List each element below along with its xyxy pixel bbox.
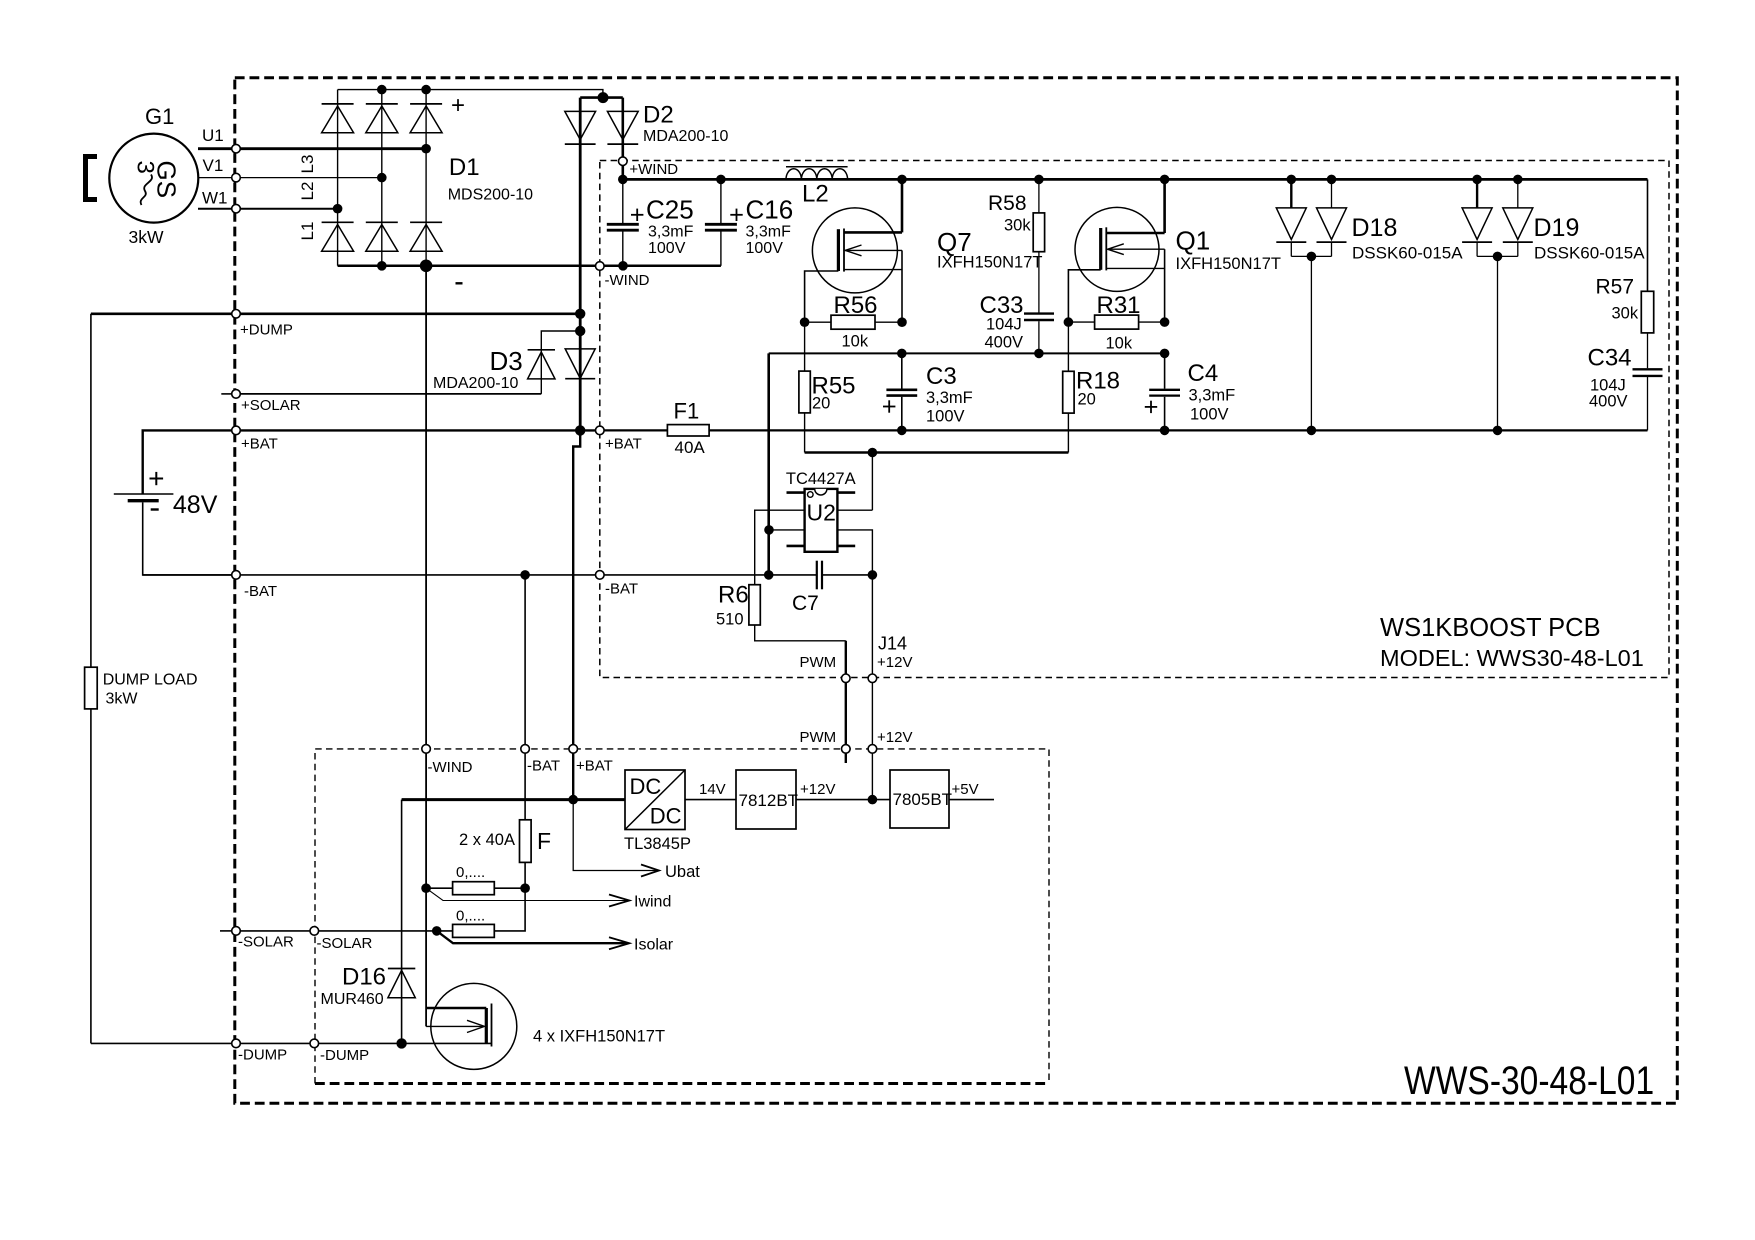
terminal -DUMP box2 <box>310 1039 319 1048</box>
D18 join wire <box>1291 255 1331 257</box>
wire top rail right corner down <box>1647 179 1649 291</box>
dump load resistor body <box>85 667 98 709</box>
junction bridge bottom right <box>420 260 433 273</box>
junction +WIND node <box>618 175 628 185</box>
resistor R18 top lead <box>1067 322 1069 371</box>
shunt Isolar body <box>453 924 495 937</box>
wire +12V tap down to U2 <box>871 453 873 511</box>
junction D19 right top <box>1513 175 1523 185</box>
svg-text:40A: 40A <box>675 438 706 457</box>
svg-text:C7: C7 <box>792 592 819 615</box>
junction C3 top <box>897 349 907 359</box>
D1 bridge mid column wire <box>381 90 383 266</box>
U2 top-left pin stub <box>787 491 805 494</box>
junction D18 to +BAT <box>1307 426 1317 436</box>
Q1 gate bar <box>1099 228 1102 270</box>
DC/DC converter box <box>625 770 685 830</box>
D1 bottom diode 1 <box>322 225 354 252</box>
svg-text:+12V: +12V <box>800 781 835 798</box>
Q1 drain lead <box>1106 232 1164 235</box>
capacitor C25 plates <box>607 223 639 226</box>
svg-text:MDA200-10: MDA200-10 <box>643 128 728 145</box>
svg-text:-SOLAR: -SOLAR <box>238 934 294 951</box>
inner dashed box lower (control board) <box>315 749 1049 1084</box>
capacitor C4 top lead <box>1164 353 1166 388</box>
terminal +12V row2 <box>868 745 877 754</box>
terminal +BAT outer <box>232 426 241 435</box>
U2 notch <box>815 489 827 495</box>
svg-text:R58: R58 <box>988 192 1027 215</box>
svg-text:PWM: PWM <box>800 729 837 746</box>
svg-text:D16: D16 <box>342 964 386 991</box>
junction +BAT DC/DC wire <box>568 795 578 805</box>
fuse F lower body <box>520 820 532 863</box>
resistor R56 body <box>831 315 875 329</box>
junction shunt Iwind left <box>421 883 431 893</box>
outer dashed frame box <box>235 78 1678 1104</box>
resistor R31 left lead <box>1068 321 1094 323</box>
svg-text:-SOLAR: -SOLAR <box>317 935 373 952</box>
svg-text:Iwind: Iwind <box>634 894 671 911</box>
terminal -SOLAR box2 <box>310 927 319 936</box>
wire 7812 to 7805 <box>796 799 890 801</box>
svg-text:F: F <box>537 828 551 854</box>
junction +12V at regulators wire <box>868 795 878 805</box>
resistor R18 bottom lead <box>1067 413 1069 452</box>
resistor R58 body <box>1033 213 1044 252</box>
inductor L2 arcs <box>786 169 848 180</box>
wire W1 phase <box>198 208 338 210</box>
capacitor C33 bottom lead <box>1038 321 1040 353</box>
svg-text:3,3mF: 3,3mF <box>648 224 694 241</box>
capacitor C4 bottom lead <box>1164 397 1166 431</box>
Q1 channel bar <box>1105 227 1107 270</box>
capacitor C16 bottom lead <box>720 232 722 266</box>
terminal V1 <box>232 173 241 182</box>
battery plus sign <box>150 478 164 480</box>
svg-text:400V: 400V <box>985 334 1024 352</box>
resistor R57 bottom lead <box>1647 333 1649 368</box>
resistor R55 bottom lead <box>804 413 806 453</box>
svg-text:W1: W1 <box>202 188 228 207</box>
svg-text:TL3845P: TL3845P <box>624 835 691 853</box>
wire dump frame down <box>90 314 92 667</box>
svg-text:R31: R31 <box>1097 292 1141 319</box>
terminal +BAT box1 <box>596 426 605 435</box>
wire -SOLAR stub <box>220 930 236 932</box>
D3 right diode <box>565 349 595 378</box>
terminal -DUMP outer <box>232 1039 241 1048</box>
svg-text:3,3mF: 3,3mF <box>926 389 973 407</box>
junction D18 left top <box>1287 175 1297 185</box>
D18 left diode <box>1276 208 1306 240</box>
svg-text:U2: U2 <box>807 500 836 526</box>
C16 polarity plus <box>730 214 742 216</box>
terminal -BAT box2 <box>521 745 530 754</box>
svg-text:0,....: 0,.... <box>456 908 485 925</box>
capacitor C16 top lead <box>720 179 722 223</box>
capacitor C3 plates <box>886 388 917 391</box>
junction D3 node <box>575 326 585 336</box>
wire R55 to R18 bottom link <box>805 451 1069 454</box>
wire battery plus to +BAT <box>143 430 600 494</box>
D1 bridge right column wire <box>425 90 427 266</box>
U2 top-right pin stub <box>837 491 855 494</box>
svg-text:100V: 100V <box>648 240 686 257</box>
D19 right diode <box>1503 208 1533 240</box>
terminal U1 <box>232 144 241 153</box>
junction U1 into bridge <box>421 144 431 154</box>
junction R31 left <box>1064 317 1074 327</box>
junction R58 top <box>1034 175 1044 185</box>
U2 bottom-right pin stub <box>837 545 855 548</box>
svg-text:+: + <box>451 92 465 119</box>
inner dashed box WS1KBOOST PCB <box>600 161 1669 678</box>
C4 polarity plus <box>1145 406 1157 408</box>
svg-text:IXFH150N17T: IXFH150N17T <box>937 254 1042 272</box>
svg-text:MUR460: MUR460 <box>321 991 384 1008</box>
svg-text:G1: G1 <box>145 104 174 129</box>
resistor R55 top lead <box>804 322 806 371</box>
wire +DUMP <box>91 312 580 315</box>
terminal PWM row1 <box>842 674 851 683</box>
Iwind sense wire <box>426 888 628 900</box>
D1 bottom diode 3 <box>410 225 442 252</box>
terminal +BAT box2 <box>569 745 578 754</box>
svg-text:+DUMP: +DUMP <box>240 322 293 339</box>
U2 lower-left pin wire <box>769 529 805 531</box>
svg-text:3kW: 3kW <box>129 227 164 247</box>
svg-text:-BAT: -BAT <box>244 583 277 600</box>
resistor R58 bottom lead <box>1038 252 1040 313</box>
wire dump branch to DC/DC <box>402 798 625 801</box>
svg-text:104J: 104J <box>986 316 1022 334</box>
resistor R31 right lead <box>1139 321 1165 323</box>
junction C4 bottom <box>1160 426 1170 436</box>
terminal +DUMP <box>232 310 241 319</box>
regulator 7812BT box <box>736 770 796 829</box>
svg-text:14V: 14V <box>699 781 726 798</box>
svg-text:DSSK60-015A: DSSK60-015A <box>1352 244 1463 263</box>
svg-text:L2: L2 <box>298 182 317 201</box>
junction -BAT box2 branch <box>520 570 530 580</box>
Q7 gate bar <box>837 229 840 271</box>
generator G1 circle <box>109 134 198 223</box>
lower box bottom dashed edge <box>315 1082 1049 1085</box>
D19 right bottom lead <box>1517 242 1519 256</box>
battery minus sign <box>151 508 159 510</box>
svg-text:0,....: 0,.... <box>456 864 485 881</box>
U2 lower-right pin wire to +12V <box>837 530 872 678</box>
svg-text:+SOLAR: +SOLAR <box>241 397 301 414</box>
svg-text:C34: C34 <box>1588 345 1632 372</box>
svg-text:C16: C16 <box>746 195 794 225</box>
junction D18 right top <box>1327 175 1337 185</box>
capacitor C7 plates <box>816 561 818 590</box>
junction -BAT gate driver <box>764 570 774 580</box>
svg-text:-WIND: -WIND <box>428 759 473 776</box>
terminal -WIND box2 <box>422 745 431 754</box>
junction Q1 drain on rail <box>1160 175 1170 185</box>
wire -BAT <box>143 574 817 576</box>
svg-text:10k: 10k <box>842 333 869 351</box>
inductor L2 core line <box>786 166 848 168</box>
resistor R6 body <box>749 585 760 625</box>
D2 left diode wire / D3 right wire <box>579 98 582 431</box>
svg-text:-DUMP: -DUMP <box>320 1047 369 1064</box>
svg-text:R57: R57 <box>1596 276 1635 299</box>
junction shunt Isolar left <box>432 926 442 936</box>
resistor R58 top lead <box>1038 179 1040 213</box>
junction D3 to +BAT <box>575 425 585 435</box>
capacitor C25 top lead <box>622 179 624 223</box>
Isolar arrowhead <box>609 937 629 949</box>
Q1 drain node wire <box>1163 179 1166 233</box>
svg-text:R56: R56 <box>834 292 878 319</box>
junction D2 top <box>598 92 609 103</box>
D3 left diode <box>528 352 555 379</box>
svg-text:Isolar: Isolar <box>634 937 674 954</box>
DC/DC diagonal <box>625 770 685 830</box>
svg-text:DC: DC <box>630 774 662 799</box>
svg-text:IXFH150N17T: IXFH150N17T <box>1176 255 1281 273</box>
resistor R55 body <box>799 371 810 413</box>
wire -WIND bus (bridge bottom rail) <box>338 265 721 268</box>
D2 left diode <box>565 111 596 139</box>
wire -BAT fuse branch <box>524 575 526 820</box>
svg-text:DUMP LOAD: DUMP LOAD <box>103 672 198 689</box>
svg-text:D3: D3 <box>490 346 523 376</box>
wire Ubat tap <box>573 800 658 871</box>
resistor R31 body <box>1095 315 1139 329</box>
D1 bottom diode 2 <box>366 225 398 252</box>
Ubat arrowhead <box>641 865 659 877</box>
svg-text:7812BT: 7812BT <box>739 791 799 810</box>
junction C16 top <box>716 175 726 185</box>
dump FET arrowhead <box>467 1020 485 1032</box>
svg-text:20: 20 <box>1078 391 1096 409</box>
D1 top diode 1 <box>322 106 354 133</box>
resistor R57 body <box>1641 291 1653 333</box>
D18 right top lead <box>1331 179 1333 208</box>
wire D19 down to +BAT rail <box>1497 256 1499 430</box>
D16 diode <box>388 970 415 998</box>
dump FET gate lead <box>426 1007 486 1010</box>
dump FET arrow lead <box>426 1025 483 1027</box>
shunt Iwind body <box>453 882 495 895</box>
D19 join wire <box>1477 255 1518 257</box>
svg-text:V1: V1 <box>203 156 224 175</box>
Q7 drain node wire <box>901 179 904 232</box>
Q7 gate elbow wire <box>805 271 839 322</box>
D19 right top lead <box>1517 179 1519 208</box>
svg-text:+BAT: +BAT <box>241 436 278 453</box>
D2 anode top wire <box>580 96 623 99</box>
wire dump branch down <box>401 800 403 1044</box>
Q1 body arrow lead <box>1107 248 1164 250</box>
D18 right diode <box>1317 208 1347 240</box>
svg-text:-WIND: -WIND <box>605 272 650 289</box>
svg-text:+5V: +5V <box>952 781 979 798</box>
svg-text:-BAT: -BAT <box>527 758 560 775</box>
D1 bridge top rail wire <box>338 89 427 91</box>
svg-text:3: 3 <box>132 161 159 174</box>
junction shunt Iwind right <box>520 883 530 893</box>
D1 top diode 3 <box>410 106 442 133</box>
svg-text:D1: D1 <box>449 154 480 181</box>
junction bridge top mid <box>377 85 387 95</box>
svg-text:3kW: 3kW <box>106 691 139 708</box>
junction C4 top <box>1160 349 1170 359</box>
junction D16 at -DUMP <box>396 1038 406 1048</box>
svg-text:20: 20 <box>812 395 830 413</box>
svg-text:100V: 100V <box>746 240 784 257</box>
svg-text:Q7: Q7 <box>937 227 972 257</box>
resistor R6 bottom lead to PWM <box>755 625 846 641</box>
junction bridge top right <box>421 85 431 95</box>
shunt Iwind right lead <box>494 887 525 889</box>
svg-text:7805BT: 7805BT <box>893 790 953 809</box>
U2 body <box>805 489 838 552</box>
capacitor C34 plates <box>1633 368 1663 370</box>
junction C33 bottom <box>1034 349 1044 359</box>
regulator 7805BT box <box>890 770 949 828</box>
wire +12V down <box>871 678 873 799</box>
shunt Iwind left lead <box>426 887 453 889</box>
svg-text:J14: J14 <box>878 634 907 654</box>
svg-text:10k: 10k <box>1106 335 1133 353</box>
junction R56 left <box>800 317 810 327</box>
D1 bridge left column wire <box>337 90 339 266</box>
U2 mid-right pin wire <box>837 509 872 511</box>
wire -BAT after C7 <box>822 574 872 576</box>
dump FET gate bar <box>485 1008 488 1044</box>
capacitor C4 plates <box>1149 389 1180 391</box>
junction D19 to +BAT <box>1493 426 1503 436</box>
dump FET channel bar <box>491 1004 493 1047</box>
Q1 arrowhead <box>1108 244 1124 255</box>
capacitor C33 plates <box>1024 312 1054 314</box>
junction +12V tap <box>868 448 878 458</box>
svg-text:L2: L2 <box>802 181 829 208</box>
svg-text:F1: F1 <box>674 399 700 424</box>
junction D18 output <box>1307 252 1317 262</box>
U2 mid-left pin wire to R6 <box>755 510 805 585</box>
svg-text:MDS200-10: MDS200-10 <box>448 187 533 204</box>
Q1 source node wire <box>1164 249 1166 322</box>
capacitor C3 bottom lead <box>901 397 903 431</box>
wire bridge plus to D2 node <box>426 90 603 98</box>
wire DC/DC to 7812 <box>685 799 736 801</box>
wire +WIND top rail <box>623 178 1648 181</box>
svg-text:D19: D19 <box>1534 214 1580 242</box>
Isolar sense wire <box>437 931 628 943</box>
svg-text:Ubat: Ubat <box>665 863 700 881</box>
terminal W1 <box>232 204 241 213</box>
wire PWM down <box>845 641 847 763</box>
svg-text:-DUMP: -DUMP <box>238 1047 287 1064</box>
capacitor C16 plates <box>705 223 737 226</box>
Q7 source node wire <box>901 250 903 322</box>
dump FET circle <box>431 983 517 1069</box>
shunt Isolar right lead <box>494 888 525 931</box>
svg-text:400V: 400V <box>1589 393 1628 411</box>
wire +5V out <box>949 799 994 801</box>
terminal -BAT outer <box>232 571 241 580</box>
D2 right diode wire <box>621 98 624 180</box>
U2 bottom-left pin stub <box>787 545 805 548</box>
junction C3 bottom <box>897 426 907 436</box>
D18 right bottom lead <box>1331 242 1333 256</box>
svg-text:4 x IXFH150N17T: 4 x IXFH150N17T <box>533 1028 665 1046</box>
wire +BAT rail <box>600 429 1648 431</box>
junction D19 left top <box>1472 175 1482 185</box>
junction W1 into bridge <box>333 204 343 214</box>
wire -WIND down to lower box <box>425 266 427 1027</box>
svg-text:MODEL: WWS30-48-L01: MODEL: WWS30-48-L01 <box>1380 645 1644 671</box>
battery minus plate <box>128 499 159 502</box>
svg-text:D18: D18 <box>1352 214 1398 242</box>
svg-text:30k: 30k <box>1004 217 1031 235</box>
svg-text:C3: C3 <box>926 363 957 390</box>
svg-text:WWS-30-48-L01: WWS-30-48-L01 <box>1404 1058 1654 1102</box>
svg-text:100V: 100V <box>926 408 965 426</box>
D19 left diode <box>1462 208 1492 240</box>
Q1 circle <box>1075 207 1159 291</box>
resistor R56 left lead <box>805 321 831 323</box>
wire -DUMP <box>91 1042 492 1044</box>
wire D18 down to +BAT rail <box>1310 256 1312 430</box>
wire +SOLAR stub <box>221 393 236 395</box>
svg-text:2 x 40A: 2 x 40A <box>459 831 515 849</box>
svg-text:+WIND: +WIND <box>629 161 678 178</box>
D1 top diode 2 <box>366 106 398 133</box>
terminal PWM row2 <box>842 745 851 754</box>
C25 polarity plus <box>631 214 643 216</box>
wire Q7/Q1 source bus <box>769 352 1165 354</box>
junction -BAT at +12V drop <box>868 570 878 580</box>
svg-text:DC: DC <box>650 804 682 829</box>
junction R31 right <box>1160 317 1170 327</box>
svg-text:+BAT: +BAT <box>605 436 642 453</box>
Q7 source lead <box>844 269 902 271</box>
resistor R18 body <box>1063 371 1074 413</box>
Q7 circle <box>812 208 897 293</box>
svg-text:C4: C4 <box>1188 360 1219 387</box>
wire V1 phase <box>198 177 381 179</box>
svg-text:30k: 30k <box>1612 305 1639 323</box>
capacitor C34 bottom lead <box>1647 377 1649 430</box>
capacitor C25 bottom lead <box>622 232 624 266</box>
terminal -WIND box1 <box>596 262 605 271</box>
shaft bracket of G1 <box>86 157 98 200</box>
svg-text:DSSK60-015A: DSSK60-015A <box>1534 244 1645 263</box>
svg-text:U1: U1 <box>202 126 224 145</box>
svg-text:510: 510 <box>716 611 744 629</box>
junction bridge bottom mid <box>377 261 387 271</box>
wire gate-driver feed vertical <box>767 353 770 575</box>
resistor R56 right lead <box>875 321 902 323</box>
terminal +12V row1 <box>868 674 877 683</box>
junction Q7 drain on rail <box>897 175 907 185</box>
Q7 body arrow lead <box>845 249 902 251</box>
svg-text:MDA200-10: MDA200-10 <box>433 375 518 392</box>
wire -SOLAR <box>236 930 453 932</box>
wire +BAT down to lower box <box>573 430 580 799</box>
junction D19 output <box>1493 252 1503 262</box>
wire +SOLAR <box>236 393 541 395</box>
Q7 drain lead <box>844 231 902 234</box>
